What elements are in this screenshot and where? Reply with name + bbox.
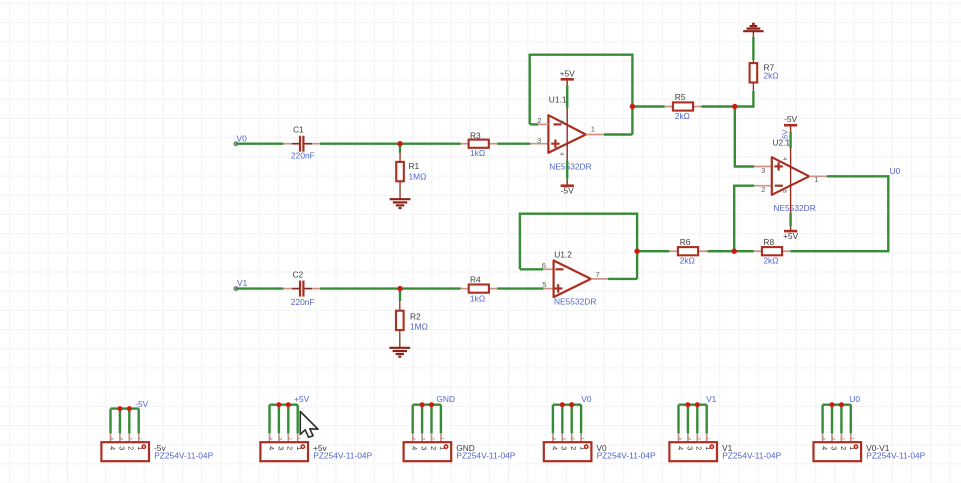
svg-text:NE5532DR: NE5532DR [549,161,591,171]
svg-text:5: 5 [542,280,546,289]
svg-text:2: 2 [286,446,295,450]
connector J3 GND PZ254V-11-04P [404,402,452,461]
wire pin2 lead [538,123,548,125]
wire U1.2 output [608,278,637,280]
svg-text:2kΩ: 2kΩ [675,111,690,121]
svg-text:4: 4 [551,437,557,440]
svg-text:3: 3 [537,136,541,145]
wire pin6 lead [543,268,554,270]
svg-text:2: 2 [429,446,438,450]
connector J1 -5v PZ254V-11-04P [101,406,149,461]
svg-text:PZ254V-11-04P: PZ254V-11-04P [866,451,925,461]
svg-text:R4: R4 [470,274,481,284]
svg-text:1MΩ: 1MΩ [410,322,428,332]
resistor R3 [461,140,498,148]
svg-text:2kΩ: 2kΩ [680,256,695,266]
wire R7 to node C [736,91,754,107]
wire node C to pin3 [735,108,754,167]
power flag +5V at U2.1 [783,231,799,241]
svg-text:2: 2 [569,446,578,450]
svg-text:8: 8 [781,190,787,193]
svg-text:3: 3 [830,437,836,440]
svg-text:2: 2 [127,437,133,440]
svg-text:3: 3 [685,446,694,450]
op-amp U1.2 input polarity signs [554,269,564,292]
svg-text:V0: V0 [581,394,592,404]
wire node F to R6 [637,250,669,252]
op-amp U2.1 input polarity signs [774,162,782,186]
svg-text:1: 1 [705,437,711,440]
svg-text:4: 4 [109,437,115,440]
svg-text:R1: R1 [409,161,420,171]
svg-text:U1.2: U1.2 [554,249,572,259]
connector J2 +5v PZ254V-11-04P [260,402,308,461]
svg-text:4: 4 [550,446,559,450]
wire pin8 to +5V [789,213,791,226]
svg-text:+5V: +5V [783,231,799,241]
wire ground to R7 [752,37,754,60]
connector J5 V1 PZ254V-11-04P [669,402,717,461]
wire +5V to pin8 [566,85,568,108]
svg-text:R3: R3 [470,131,481,141]
svg-text:1: 1 [591,124,595,133]
svg-text:U1.1: U1.1 [549,95,567,105]
junction A [397,141,402,146]
svg-text:1: 1 [137,437,143,440]
wire pin5 lead [543,288,553,290]
wire node B to R5 [632,105,664,107]
svg-text:2: 2 [695,446,704,450]
power pin leads U2.1 [790,125,792,231]
wire node D to pin2 [734,186,754,252]
capacitor C1 [283,136,320,152]
svg-text:2: 2 [761,185,765,194]
svg-text:2: 2 [570,437,576,440]
svg-text:1: 1 [296,437,302,440]
ground above R7 [743,24,763,31]
svg-text:2: 2 [430,437,436,440]
svg-text:1kΩ: 1kΩ [470,294,485,304]
svg-text:R2: R2 [410,311,421,321]
wire U1.1 output [604,133,633,135]
wire U1.1 feedback loop [530,55,633,135]
svg-text:-5V: -5V [135,399,148,409]
svg-text:7: 7 [596,270,600,279]
junction C [732,104,737,109]
svg-text:PZ254V-11-04P: PZ254V-11-04P [154,451,213,461]
wire pin6 [520,268,543,270]
svg-text:1: 1 [579,437,585,440]
svg-text:3: 3 [420,446,429,450]
wire R3 to U1.1 pin3 [497,142,530,144]
wire junction to R1 [399,145,401,153]
wire node D to R8 [734,250,754,252]
mouse cursor [300,412,318,438]
node V1 input pin [233,286,238,291]
svg-text:4: 4 [676,446,685,450]
svg-text:3: 3 [276,446,285,450]
svg-text:1: 1 [439,437,445,440]
svg-text:3: 3 [761,166,765,175]
svg-text:-5V: -5V [561,186,574,196]
svg-text:2: 2 [695,437,701,440]
wire V0 to C1 [236,142,283,144]
svg-text:3: 3 [118,437,124,440]
svg-text:V1: V1 [237,278,248,288]
svg-text:4: 4 [411,437,417,440]
svg-text:2: 2 [839,446,848,450]
connector J6 V0-V1 PZ254V-11-04P [814,402,862,461]
svg-text:PZ254V-11-04P: PZ254V-11-04P [722,451,781,461]
op-amp U1.2 [554,261,591,298]
junction D [732,249,737,254]
svg-text:U0: U0 [849,394,860,404]
resistor R1 [396,152,404,199]
svg-text:3: 3 [560,437,566,440]
svg-text:3: 3 [560,446,569,450]
svg-text:2kΩ: 2kΩ [764,70,779,80]
op-amp U2.1 [772,157,809,195]
wire pin3 lead [530,143,548,145]
svg-text:4: 4 [108,446,117,450]
wire U0 feedback route [790,176,888,251]
wire C2 to R4 [320,287,461,289]
svg-text:NE5532DR: NE5532DR [773,203,815,213]
wire R6 to node D [708,250,735,252]
svg-text:GND: GND [436,394,455,404]
power flag -5V at U2.1 [784,114,798,125]
wire pin4 to -5V [566,161,568,179]
wire R4 to U1.2 pin5 [497,287,543,289]
svg-text:1: 1 [849,437,855,440]
svg-text:U0: U0 [890,166,901,176]
svg-text:4: 4 [558,152,564,155]
node V0 input pin [233,141,238,146]
power flag +5V at U1.1 [560,68,576,79]
svg-text:-5V: -5V [784,114,797,124]
wire U1.2 feedback loop [520,214,637,279]
wire V1 to C2 [236,287,283,289]
svg-text:2: 2 [127,446,136,450]
wire R5 to node C [702,105,735,107]
svg-text:8: 8 [558,120,564,123]
wire U2.1 output lead [809,175,827,177]
wire pin2 [530,123,539,125]
svg-text:2: 2 [286,437,292,440]
svg-text:4: 4 [781,157,787,160]
svg-text:3: 3 [686,437,692,440]
svg-text:+5V: +5V [294,394,310,404]
svg-text:3: 3 [420,437,426,440]
svg-text:3: 3 [829,446,838,450]
wire pin3 lead U2.1 [754,166,772,168]
junction B [630,104,635,109]
svg-text:+5V: +5V [560,68,576,78]
wire C1 to R3 [320,142,461,144]
wire pin2 lead U2.1 [754,185,772,187]
svg-text:3: 3 [277,437,283,440]
svg-text:V1: V1 [706,394,717,404]
wire U1.1 output lead [586,134,604,136]
svg-text:PZ254V-11-04P: PZ254V-11-04P [456,451,515,461]
svg-text:4: 4 [410,446,419,450]
svg-text:PZ254V-11-04P: PZ254V-11-04P [313,451,372,461]
ground at R1 [390,199,411,208]
svg-text:-5V: -5V [780,129,789,142]
junction E [397,286,402,291]
pin 8 power lead U1.1 [566,79,568,185]
svg-text:R8: R8 [763,237,774,247]
svg-text:1kΩ: 1kΩ [470,148,485,158]
svg-text:220nF: 220nF [291,150,315,160]
op-amp U1.1 [548,115,585,153]
resistor R8 [754,247,791,255]
wire ground lead [752,31,754,37]
svg-text:4: 4 [820,446,829,450]
svg-text:C1: C1 [293,125,304,135]
svg-text:2kΩ: 2kΩ [763,256,778,266]
svg-text:1MΩ: 1MΩ [409,171,427,181]
svg-text:6: 6 [542,261,546,270]
junction F [634,249,639,254]
resistor R4 [461,285,498,293]
power flag -5V at U1.1 [561,186,575,196]
op-amp U1.1 input polarity signs [551,124,561,147]
resistor R6 [669,247,707,255]
wire U1.2 output lead [591,278,608,280]
svg-text:R5: R5 [675,92,686,102]
svg-text:2: 2 [839,437,845,440]
resistor R7 [750,60,758,90]
capacitor C2 [283,281,320,297]
wire junction to R2 [399,290,401,301]
svg-text:4: 4 [821,437,827,440]
svg-text:4: 4 [677,437,683,440]
resistor R2 [396,301,404,348]
svg-text:4: 4 [267,446,276,450]
svg-text:4: 4 [268,437,274,440]
wire -5V to pin4 [789,132,791,149]
svg-text:R6: R6 [680,237,691,247]
connector J4 V0 PZ254V-11-04P [544,402,592,461]
resistor R5 [665,102,702,110]
svg-text:NE5532DR: NE5532DR [554,296,596,306]
svg-text:V0: V0 [237,133,248,143]
svg-text:C2: C2 [293,269,304,279]
svg-text:220nF: 220nF [291,297,315,307]
svg-text:3: 3 [117,446,126,450]
svg-text:PZ254V-11-04P: PZ254V-11-04P [597,451,656,461]
ground at R2 [389,348,410,357]
